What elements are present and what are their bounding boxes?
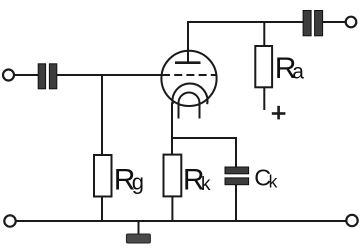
wire: Rk to ground rail xyxy=(171,196,173,221)
terminal (bottom right) xyxy=(346,215,357,226)
ground symbol xyxy=(126,234,150,243)
label Rg xyxy=(114,164,144,197)
wire: grid node down to Rg xyxy=(101,75,103,155)
wire: cathode lead down to Rk xyxy=(171,103,173,156)
triode heater xyxy=(179,93,200,119)
svg-text:a: a xyxy=(292,60,304,83)
wire: C2 to output terminal xyxy=(323,21,346,23)
svg-text:g: g xyxy=(132,170,144,195)
triode anode lead xyxy=(187,22,189,63)
wire: C1 to tube grid xyxy=(57,74,163,76)
triode anode plate xyxy=(175,61,201,64)
capacitor C1 (input coupling) xyxy=(38,64,57,89)
label Ck xyxy=(254,165,277,192)
wire: top rail down to Ra xyxy=(263,22,265,46)
wire: Rg to ground rail xyxy=(101,197,103,222)
triode grid (dashed) xyxy=(162,74,217,76)
svg-text:k: k xyxy=(201,174,211,195)
terminal (bottom left) xyxy=(4,215,15,226)
wire: input terminal to C1 xyxy=(14,74,38,76)
label Rk xyxy=(183,163,211,196)
output terminal (top right) xyxy=(346,17,357,28)
capacitor C2 (output coupling) xyxy=(303,11,323,36)
label Ra xyxy=(275,52,305,85)
wire: rail to ground symbol xyxy=(138,221,140,235)
triode V1 envelope xyxy=(161,51,216,106)
triode cathode arc xyxy=(173,83,208,104)
wire: Ra to + supply xyxy=(263,87,265,110)
wire: cathode junction to Ck xyxy=(172,138,236,167)
input terminal (left) xyxy=(3,70,14,81)
label + (supply) xyxy=(272,106,286,120)
resistor Rg xyxy=(94,155,112,197)
resistor Rk xyxy=(164,155,182,197)
wire: Ck to ground rail xyxy=(235,185,237,221)
wire: anode top rail xyxy=(187,21,303,23)
svg-text:k: k xyxy=(269,172,278,192)
ground rail (bottom) xyxy=(16,220,347,222)
resistor Ra xyxy=(255,46,272,87)
capacitor Ck xyxy=(225,167,249,185)
